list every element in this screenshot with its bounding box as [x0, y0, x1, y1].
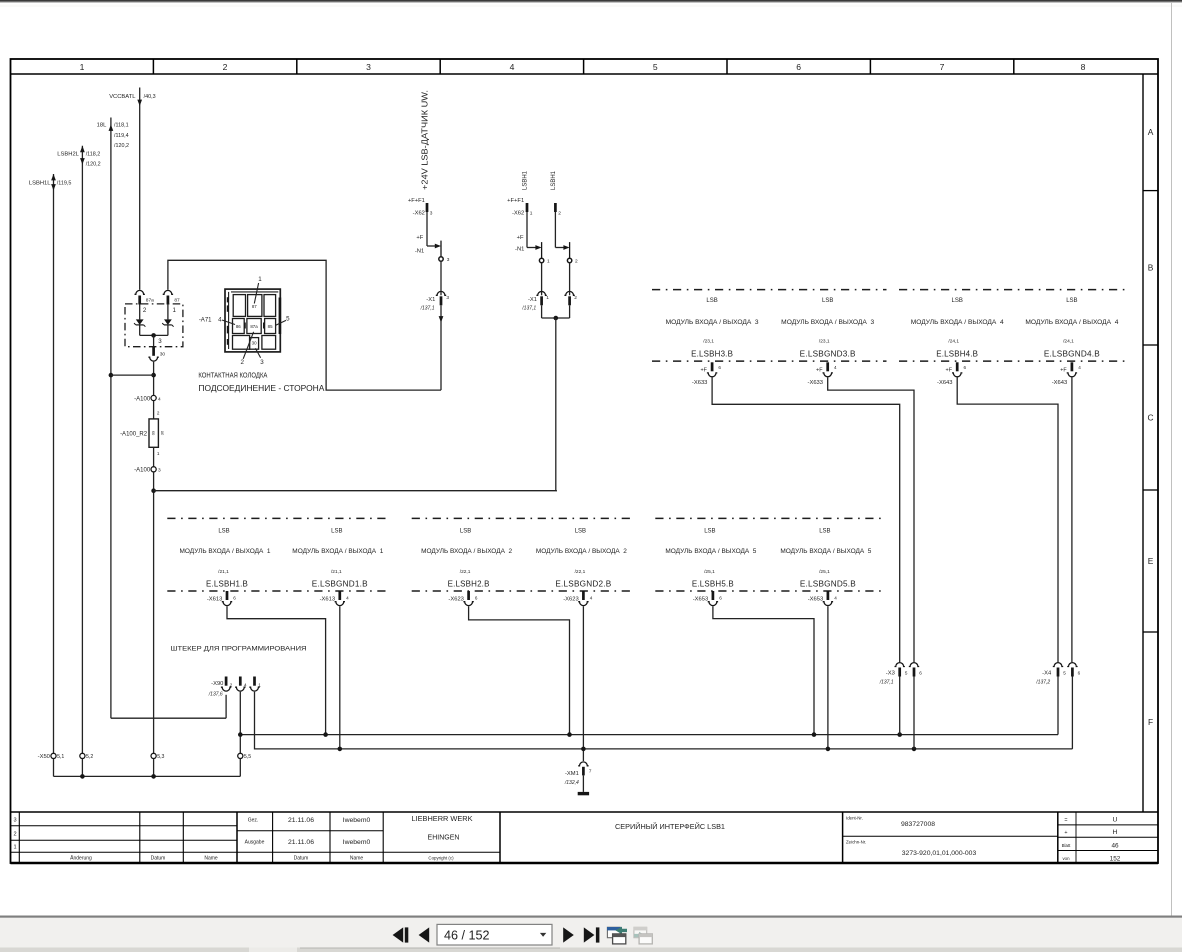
connector -X90 pin 4 bar [239, 677, 242, 686]
nav last-page icon [584, 927, 595, 942]
svg-text:3: 3 [446, 295, 449, 301]
bus1 horizontal wire [240, 734, 1058, 736]
block -A71 inner left line [228, 292, 230, 349]
svg-text:Blatt: Blatt [1062, 843, 1072, 848]
svg-text:Ident-Nr.: Ident-Nr. [846, 816, 863, 821]
svg-text:152: 152 [1110, 856, 1121, 863]
svg-text:1: 1 [547, 259, 550, 265]
svg-text:6: 6 [475, 595, 478, 600]
connector -X623 bar [582, 591, 585, 600]
svg-text:ШТЕКЕР ДЛЯ ПРОГРАММИРОВАНИЯ: ШТЕКЕР ДЛЯ ПРОГРАММИРОВАНИЯ [171, 646, 307, 653]
next-view icon disabled [634, 927, 653, 944]
svg-text:+F: +F [517, 235, 524, 241]
svg-text:-X643: -X643 [937, 380, 952, 386]
svg-text:21.11.06: 21.11.06 [288, 839, 314, 846]
svg-text:+: + [1064, 830, 1067, 836]
svg-text:6: 6 [233, 595, 236, 600]
svg-text:3: 3 [430, 210, 433, 216]
svg-text:+F+F1: +F+F1 [507, 198, 524, 204]
svg-text:4: 4 [590, 595, 593, 600]
svg-text:/137,6: /137,6 [208, 692, 223, 698]
connector -X3 pin 6 bar [913, 668, 916, 677]
svg-text:3: 3 [366, 62, 371, 72]
block -A71 cell 85 [265, 319, 276, 334]
svg-text:E.LSBGND2.B: E.LSBGND2.B [555, 580, 611, 589]
diode V1 wire [139, 305, 141, 320]
svg-text:86: 86 [236, 324, 241, 329]
wire 5,2 to ground bus [81, 759, 83, 777]
svg-text:МОДУЛЬ ВХОДА / ВЫХОДА 1: МОДУЛЬ ВХОДА / ВЫХОДА 1 [292, 548, 383, 555]
connector -X643 arc [952, 373, 962, 377]
block -A71 cell row3 left [233, 336, 250, 350]
svg-text:4: 4 [346, 595, 349, 600]
wire relay 87 to -X1 sensor supply [168, 260, 441, 390]
net LSBH2L wire [81, 146, 83, 754]
svg-text:VCCBATL: VCCBATL [109, 94, 136, 100]
svg-text:-A100: -A100 [134, 468, 151, 474]
title block horizontal ident/zeich divider [843, 835, 1058, 837]
svg-text:1: 1 [80, 62, 85, 72]
wire E.LSBGND3.B to -X3 pin 6 [828, 377, 914, 662]
block -A71 cell row1 left [233, 295, 245, 317]
svg-text:/120,2: /120,2 [86, 162, 101, 168]
svg-text:6: 6 [796, 62, 801, 72]
ruler bottom line [11, 73, 1159, 75]
svg-text:-X62: -X62 [413, 210, 425, 216]
relay output junction [151, 333, 156, 338]
toolbar background [0, 918, 1182, 948]
svg-text:/21,1: /21,1 [218, 569, 229, 575]
net VCCBATL down arrow [137, 100, 142, 106]
svg-text:-X633: -X633 [808, 380, 823, 386]
connector -X90 pin 1 arc [249, 687, 259, 691]
connector -X613 bar [338, 591, 341, 600]
wire -X1 down [541, 305, 543, 318]
row letter separators [1143, 190, 1158, 192]
svg-text:МОДУЛЬ ВХОДА / ВЫХОДА 3: МОДУЛЬ ВХОДА / ВЫХОДА 3 [666, 319, 759, 326]
connector -X1 pin 3 bar [440, 296, 443, 305]
svg-text:30: 30 [252, 341, 257, 346]
svg-text:18L: 18L [97, 123, 107, 129]
svg-text:/25,1: /25,1 [704, 569, 715, 575]
svg-text:2: 2 [575, 259, 578, 265]
svg-text:/22,1: /22,1 [575, 569, 586, 575]
wire E.LSBH2.B to bus1 [469, 606, 570, 734]
svg-text:Änderung: Änderung [70, 855, 92, 862]
svg-text:/24,1: /24,1 [948, 339, 959, 345]
fuse bar [541, 242, 543, 258]
wire -X90 pin 1 to bus2 [255, 692, 1073, 749]
wire LSBH1 down [555, 318, 557, 491]
connector -X623 arc [578, 602, 588, 606]
svg-text:E.LSBH2.B: E.LSBH2.B [448, 580, 490, 589]
svg-text:LSBH1L: LSBH1L [29, 180, 51, 186]
svg-text:-N1: -N1 [415, 248, 424, 254]
svg-text:LSB: LSB [575, 528, 586, 534]
svg-text:5,3: 5,3 [157, 754, 164, 760]
svg-text:7: 7 [589, 769, 592, 774]
svg-text:30: 30 [160, 352, 166, 358]
svg-text:1: 1 [530, 210, 533, 216]
nav first-page icon [393, 927, 404, 942]
connector -A100 pin 87a bar [138, 296, 141, 305]
svg-text:/137,1: /137,1 [879, 679, 894, 685]
lower modules dash-dot bottom line [167, 590, 389, 592]
svg-text:EHINGEN: EHINGEN [428, 835, 460, 842]
connector -X3 pin 6 arc [909, 663, 919, 667]
svg-text:87: 87 [174, 297, 180, 303]
svg-text:LSB: LSB [952, 298, 963, 304]
svg-text:2: 2 [13, 832, 16, 838]
block -A71 left key marks [227, 297, 229, 302]
terminal -A100 pin 3 circle [151, 467, 156, 472]
terminal -X50 pin 5,3 circle [151, 753, 156, 758]
block -A71 right thick bar [279, 298, 282, 335]
svg-text:H: H [1113, 829, 1118, 836]
previous-view icon [607, 927, 627, 944]
svg-text:-X50: -X50 [38, 754, 50, 760]
wire resistor to pin 3 [153, 447, 155, 466]
svg-text:/118,1: /118,1 [114, 123, 129, 129]
svg-text:МОДУЛЬ ВХОДА / ВЫХОДА 5: МОДУЛЬ ВХОДА / ВЫХОДА 5 [665, 548, 756, 555]
wire LSBH1 bus horizontal [154, 490, 557, 492]
svg-text:5: 5 [905, 670, 908, 675]
fuse arrow wire [527, 247, 537, 249]
svg-text:LSBH2L: LSBH2L [57, 152, 79, 158]
connector -X653 arc [823, 602, 833, 606]
wire to -X1 [541, 263, 543, 296]
svg-text:/21,1: /21,1 [331, 569, 342, 575]
svg-text:-X4: -X4 [1042, 670, 1052, 676]
svg-text:5: 5 [286, 315, 290, 322]
wire -X62 pin 2 down [554, 212, 556, 248]
connector -X1 pin 1 bar [540, 296, 543, 305]
svg-text:Zeichn-Nr.: Zeichn-Nr. [846, 840, 866, 845]
relay output wire [153, 335, 155, 346]
svg-text:+F: +F [816, 368, 823, 374]
ruler column ticks [152, 59, 154, 74]
net 18L wire [110, 118, 112, 719]
diode V2 wire [167, 305, 169, 320]
diode V2 [164, 319, 172, 325]
svg-text:C: C [1147, 413, 1153, 423]
svg-text:E.LSBH4.B: E.LSBH4.B [936, 349, 978, 358]
title block horizontals left revision table [11, 825, 238, 827]
svg-text:МОДУЛЬ ВХОДА / ВЫХОДА 1: МОДУЛЬ ВХОДА / ВЫХОДА 1 [180, 548, 271, 555]
svg-text:Datum: Datum [294, 856, 309, 862]
svg-text:-X623: -X623 [448, 596, 463, 602]
svg-text:3: 3 [13, 818, 16, 824]
wire -X62 down [426, 212, 428, 246]
svg-text:+F: +F [700, 368, 707, 374]
svg-text:4: 4 [218, 316, 222, 323]
title block verticals [18, 812, 20, 863]
svg-text:/23,1: /23,1 [819, 339, 830, 345]
wire to resistor [153, 401, 155, 419]
svg-text:-X623: -X623 [563, 596, 578, 602]
svg-text:Iwebem0: Iwebem0 [343, 817, 371, 824]
connector -X90 pin 2 arc [221, 687, 231, 691]
connector -X3 pin 5 bar [898, 668, 901, 677]
connector block -A71 outline [225, 289, 280, 352]
wire -X4 pin 6 to bus2 [1071, 677, 1073, 749]
svg-text:/24,1: /24,1 [1063, 339, 1074, 345]
connector -XM1 arc [578, 762, 588, 766]
svg-text:Iwebem0: Iwebem0 [343, 839, 371, 846]
net LSBH1L down arrow [51, 184, 56, 190]
svg-text:-A100_R2: -A100_R2 [120, 431, 148, 437]
wire pin3 down to X50 [153, 472, 155, 753]
svg-text:/120,2: /120,2 [114, 143, 129, 149]
svg-text:3: 3 [447, 257, 450, 263]
wire 18L-A100 bridge [111, 374, 154, 376]
svg-text:LSB: LSB [218, 528, 229, 534]
wire 5,5 to ground bus [239, 759, 241, 777]
svg-text:2: 2 [574, 295, 577, 301]
nav previous-page icon [419, 927, 430, 942]
lower modules dash-dot top line [167, 517, 389, 519]
connector -A100 pin 87 bar [167, 296, 170, 305]
svg-text:/40,3: /40,3 [144, 94, 156, 100]
svg-text:+24V LSB-ДАТЧИК UW.: +24V LSB-ДАТЧИК UW. [421, 90, 430, 190]
svg-text:LSB: LSB [331, 528, 342, 534]
page number box [437, 924, 552, 945]
svg-text:LSB: LSB [1066, 298, 1077, 304]
wire E.LSBH3.B to -X3 pin 5 [712, 377, 900, 662]
wire pin30 down [153, 362, 155, 398]
svg-text:F: F [1148, 717, 1153, 727]
svg-text:-X3: -X3 [886, 670, 895, 676]
svg-text:6: 6 [919, 670, 922, 675]
svg-text:4: 4 [510, 62, 515, 72]
connector -X613 arc [222, 602, 232, 606]
svg-text:E.LSBH3.B: E.LSBH3.B [691, 349, 733, 358]
block -A71 cell 86 [233, 319, 245, 334]
connector -X643 bar [1071, 362, 1074, 371]
svg-text:Gez.: Gez. [248, 818, 259, 824]
connector -X633 arc [707, 373, 717, 377]
wire E.LSBGND2.B to -XM1 [582, 606, 584, 761]
title block outer lines [11, 811, 1159, 813]
connector -X4 pin 6 arc [1067, 663, 1077, 667]
svg-text:85: 85 [268, 324, 273, 329]
svg-text:6: 6 [1078, 670, 1081, 675]
svg-text:-X90: -X90 [211, 681, 223, 687]
block -A71 cell row3 right [262, 336, 276, 350]
svg-text:Name: Name [204, 856, 218, 862]
wire E.LSBH4.B to -X4 pin 5 [957, 377, 1058, 662]
svg-text:2: 2 [558, 210, 561, 216]
svg-text:46 / 152: 46 / 152 [444, 929, 490, 943]
junction 18L to A100 [109, 373, 114, 378]
resistor -A100_R2 body [149, 419, 158, 447]
svg-text:Ausgabe: Ausgabe [245, 840, 265, 846]
svg-text:E: E [1148, 556, 1154, 566]
connector -X623 arc [463, 602, 473, 606]
connector -X1 pin 2 bar [568, 296, 571, 305]
wire -X3 pin 6 to bus2 [913, 677, 915, 749]
connector -X633 bar [711, 362, 714, 371]
window top border strip [0, 0, 1182, 2]
wire to -X1 [440, 261, 442, 295]
ground bus junctions [80, 774, 85, 779]
svg-text:МОДУЛЬ ВХОДА / ВЫХОДА 2: МОДУЛЬ ВХОДА / ВЫХОДА 2 [421, 548, 512, 555]
svg-text:Copyright (c): Copyright (c) [428, 856, 454, 861]
svg-text:87a: 87a [146, 297, 154, 303]
svg-text:LSBH1: LSBH1 [551, 170, 557, 190]
svg-text:-X653: -X653 [808, 596, 823, 602]
svg-text:/137,2: /137,2 [1035, 679, 1050, 685]
net LSBH2L down arrow [80, 158, 85, 164]
svg-text:E.LSBGND4.B: E.LSBGND4.B [1044, 349, 1100, 358]
fuse output circle 3 [439, 257, 443, 261]
svg-text:МОДУЛЬ ВХОДА / ВЫХОДА 5: МОДУЛЬ ВХОДА / ВЫХОДА 5 [780, 548, 871, 555]
relay output join wire [140, 334, 168, 336]
connector -X62 pin 1 bar [526, 203, 529, 212]
svg-text:5,5: 5,5 [244, 754, 251, 760]
connector -X613 bar [226, 591, 229, 600]
connector -X633 arc [823, 373, 833, 377]
wire -XM1 to ground [582, 775, 584, 792]
svg-text:2: 2 [223, 62, 228, 72]
svg-text:+F: +F [416, 235, 423, 241]
svg-text:-XM1: -XM1 [565, 771, 579, 777]
svg-text:6: 6 [718, 365, 721, 370]
svg-text:4: 4 [158, 396, 161, 402]
wire E.LSBGND4.B to -X4 pin 6 [1071, 377, 1073, 662]
svg-text:1: 1 [258, 276, 262, 283]
svg-text:5,2: 5,2 [86, 754, 93, 760]
connector pin 30 bar [152, 346, 155, 355]
connector -X1 pin 3 arc [436, 291, 446, 295]
svg-text:-X1: -X1 [528, 297, 537, 303]
net 18L up arrow [109, 125, 114, 131]
relay -A100 dash-dot enclosure [125, 304, 183, 347]
svg-text:3: 3 [158, 338, 162, 345]
nav next-page icon [563, 927, 574, 942]
svg-text:E.LSBGND1.B: E.LSBGND1.B [312, 580, 368, 589]
wire -X1 down [569, 305, 571, 318]
net 18L wire to -X90 pin 2 [111, 717, 226, 719]
upper modules dash-dot bottom line [652, 360, 887, 362]
connector -X4 pin 5 bar [1057, 668, 1060, 677]
title block horizontals middle [237, 830, 383, 832]
connector -X90 pin 1 bar [253, 677, 256, 686]
svg-text:/118,2: /118,2 [86, 152, 101, 158]
fuse arrow wire [427, 245, 436, 247]
svg-text:СЕРИЙНЫЙ ИНТЕРФЕЙС LSB1: СЕРИЙНЫЙ ИНТЕРФЕЙС LSB1 [615, 822, 725, 831]
svg-text:B: B [1148, 263, 1154, 273]
svg-text:-X613: -X613 [320, 596, 335, 602]
svg-text:E.LSBH5.B: E.LSBH5.B [692, 580, 734, 589]
svg-text:5,1: 5,1 [57, 754, 64, 760]
svg-text:МОДУЛЬ ВХОДА / ВЫХОДА 4: МОДУЛЬ ВХОДА / ВЫХОДА 4 [911, 319, 1004, 326]
connector -X90 pin 4 arc [235, 687, 245, 691]
ground symbol [578, 792, 589, 795]
svg-text:LSB: LSB [460, 528, 471, 534]
svg-text:/22,1: /22,1 [460, 569, 471, 575]
svg-text:2: 2 [240, 359, 244, 366]
svg-text:983727008: 983727008 [901, 821, 935, 828]
svg-text:/23,1: /23,1 [703, 339, 714, 345]
svg-text:-X1: -X1 [426, 297, 435, 303]
svg-text:МОДУЛЬ ВХОДА / ВЫХОДА 2: МОДУЛЬ ВХОДА / ВЫХОДА 2 [536, 548, 627, 555]
net LSBH1L wire [53, 174, 55, 753]
wire -X4 pin 5 to bus1 [1057, 677, 1059, 735]
connector -X4 pin 6 bar [1071, 668, 1074, 677]
svg-text:7: 7 [940, 62, 945, 72]
wire -X1 down with arrow [440, 305, 442, 390]
svg-text:-N1: -N1 [515, 246, 524, 252]
wire to -X1 [569, 263, 571, 296]
diode V1 [136, 319, 144, 325]
svg-text:LSB: LSB [819, 528, 830, 534]
svg-text:-A100: -A100 [134, 396, 151, 402]
svg-text:87a: 87a [250, 324, 258, 329]
svg-text:+F+F1: +F+F1 [408, 198, 425, 204]
fuse output circle 1 [539, 258, 543, 262]
bus2 junctions [338, 747, 343, 752]
net LSBH2L up arrow [80, 146, 85, 152]
svg-text:36: 36 [160, 430, 165, 435]
svg-text:3: 3 [158, 468, 161, 474]
connector -X90 pin 2 bar [225, 677, 228, 686]
svg-text:U: U [1113, 817, 1118, 824]
svg-text:/119,5: /119,5 [57, 180, 72, 186]
svg-text:LSB: LSB [706, 298, 717, 304]
fuse arrow wire [555, 247, 564, 249]
svg-text:КОНТАКТНАЯ КОЛОДКА: КОНТАКТНАЯ КОЛОДКА [198, 373, 267, 380]
wire -X62 pin 1 down [526, 212, 528, 248]
connector -X4 pin 5 arc [1053, 663, 1063, 667]
wire E.LSBH1.B to bus1 [227, 606, 326, 734]
svg-text:3: 3 [260, 359, 264, 366]
svg-text:87: 87 [252, 304, 257, 309]
connector -X623 bar [467, 591, 470, 600]
svg-text:/25,1: /25,1 [819, 569, 830, 575]
wire LSBH1 join [542, 317, 570, 319]
connector -X62 pin 3 bar [426, 203, 429, 212]
svg-text:Name: Name [350, 856, 364, 862]
terminal -X50 pin 5,2 circle [80, 753, 85, 758]
net VCCBATL wire [139, 88, 141, 290]
ground bus wire [54, 775, 241, 777]
block -A71 inner top line [231, 291, 278, 293]
junction LSBH1 [554, 316, 559, 321]
svg-text:6: 6 [964, 365, 967, 370]
svg-text:-X62: -X62 [512, 210, 524, 216]
svg-text:46: 46 [1111, 843, 1119, 850]
fuse bar [569, 242, 571, 258]
connector -X653 bar [827, 591, 830, 600]
net LSBH1L up arrow [51, 174, 56, 180]
svg-text:LIEBHERR WERK: LIEBHERR WERK [412, 816, 473, 823]
svg-text:5: 5 [653, 62, 658, 72]
bus1 junctions [238, 732, 243, 737]
upper modules dash-dot top line [652, 289, 887, 291]
svg-text:1: 1 [157, 451, 160, 456]
wire E.LSBGND1.B to bus2 [339, 606, 341, 749]
terminal -X50 pin 5,5 circle [238, 753, 243, 758]
connector -X633 bar [826, 362, 829, 371]
svg-text:Datum: Datum [151, 856, 166, 862]
svg-text:21.11.06: 21.11.06 [288, 817, 314, 824]
junction A100 to LSBH1 bus [151, 488, 156, 493]
connector -X62 pin 2 bar [554, 203, 557, 212]
svg-text:-A71: -A71 [199, 317, 212, 323]
svg-text:2: 2 [143, 307, 147, 314]
terminal -X50 pin 5,1 circle [51, 753, 56, 758]
